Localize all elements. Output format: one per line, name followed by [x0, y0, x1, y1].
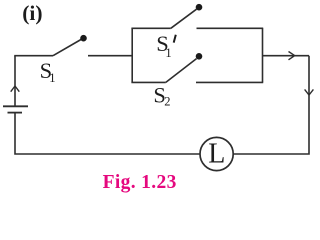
- battery B1 short plate (-): [8, 112, 23, 114]
- wire: top branch right segment: [197, 27, 264, 29]
- switch S1 blade: [53, 40, 81, 56]
- wire: parallel box right vertical: [262, 28, 264, 82]
- switch S1' contact dot: [196, 4, 203, 11]
- svg-text:1: 1: [165, 46, 171, 60]
- current arrow (up) on left wire: [11, 86, 20, 92]
- wire: horizontal from S1 to parallel box: [88, 55, 132, 57]
- current arrow (right) on exit wire: [289, 52, 295, 60]
- wire: right vertical down to bottom wire: [234, 56, 310, 154]
- switch S2 blade: [166, 59, 197, 83]
- svg-text:(i): (i): [22, 1, 42, 25]
- wire: exit wire from box to right vertical: [263, 55, 310, 57]
- wire: top branch left segment: [131, 27, 170, 29]
- switch S1' blade: [171, 9, 197, 28]
- switch S1 contact dot: [80, 35, 87, 42]
- svg-text:2: 2: [164, 95, 170, 109]
- wire: bottom branch left segment: [131, 81, 165, 83]
- svg-text:Fig. 1.23: Fig. 1.23: [103, 172, 177, 193]
- svg-text:L: L: [208, 139, 225, 170]
- wire: bottom branch right segment: [196, 81, 263, 83]
- lamp L circle: [200, 137, 233, 170]
- wire: parallel box left vertical: [131, 28, 133, 82]
- wire: left vertical upper (battery to S1 level): [14, 56, 16, 106]
- wire: left vertical lower (battery to bottom wire): [15, 113, 200, 154]
- wire: top-left horizontal to S1 pivot: [14, 55, 53, 57]
- switch S2 contact dot: [196, 53, 203, 60]
- svg-text:1: 1: [49, 71, 55, 85]
- current arrow (down) on right wire: [305, 89, 314, 95]
- battery B1 long plate (+): [3, 105, 28, 107]
